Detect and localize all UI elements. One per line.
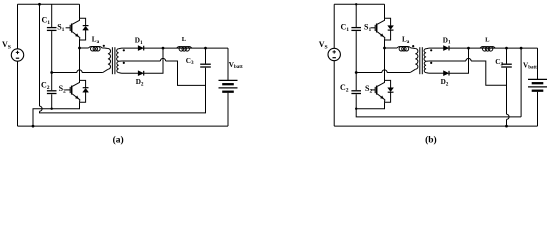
S1 (b) diode [388,26,394,30]
wire to D2 (a) [122,72,139,74]
inductor La (a) [88,46,102,48]
wire midpoint to La (b) [385,47,398,49]
wire C1 top (b) [355,4,357,27]
transformer T (b) core line 1 [419,47,421,74]
polarity dot primary (a) [103,45,105,47]
junction half-bridge midpoint (b) [383,47,386,50]
inductor La (b) [397,46,411,48]
wire primary return, hops over switch leg (b) [356,70,410,73]
capacitor C1 (a) [47,27,57,29]
transistor S1 (b) (IGBT with antiparallel diode) [385,18,391,25]
svg-text:L: L [182,36,187,43]
transformer T (a) secondary lower winding [117,61,119,72]
wire C3 bottom to bottom rail, hops over common wire (b) [507,68,510,126]
junction common riser top (b) [520,47,523,50]
top rail (b) [334,3,384,5]
svg-text:L: L [485,37,490,44]
wire primary return, hops over switch leg (a) [52,70,103,73]
wire D1 cathode (b) [449,47,468,49]
battery Vbatt (a) [227,48,229,80]
wire C3 top lead (a) [205,48,207,63]
capacitor C3 (a) [200,63,211,65]
wire C1 top (a) [51,4,53,27]
wire secondary bottom lead (b) [426,72,429,75]
transistor S2 (b) (IGBT with antiparallel diode) [385,80,391,87]
wire to D1 (b) [429,47,444,49]
wire secondary center tap lead (b) [426,60,429,62]
wire C1-C2 (a) [51,31,53,90]
wire secondary bottom lead (a) [119,72,122,75]
polarity dot primary (b) [412,45,414,47]
inductor L (a) [177,47,192,49]
junction half-bridge midpoint (a) [78,47,81,50]
wire primary bottom lead (a) [103,69,108,72]
wire secondary top lead (a) [119,47,122,50]
junction top rail / C1 (b) [355,3,357,5]
wire S1-S2 leg (b) [384,40,386,80]
wire D2 cathode riser (b) [449,48,468,73]
wire rail to S1 (a) [79,4,81,18]
bottom rail (b) [334,125,537,127]
transformer T (b) secondary lower winding [424,61,426,72]
diode D2 (a) [138,71,143,76]
transistor S2 (a) (IGBT with antiparallel diode) [80,80,86,87]
inductor L (b) [480,47,495,49]
junction C3 top (b) [505,47,508,50]
junction cap midpoint / primary return (b) [355,71,358,74]
polarity dot secondary lower (a) [123,62,125,64]
junction rectifier output (b) [467,47,470,50]
wire output top (b) [469,47,538,49]
S1 (a) diode [83,25,89,27]
battery Vbatt (b) [537,48,539,79]
wire S1-S2 leg (a) [79,40,81,80]
bottom rail (a) [18,125,229,127]
wire C2 bottom (a) [51,94,53,108]
junction rectifier output (a) [162,47,165,50]
transistor S1 (a) (IGBT with antiparallel diode) [80,18,86,25]
svg-text:(b): (b) [425,135,437,146]
transformer T (a) core line 2 [114,47,116,74]
junction top rail / common wire (a) [38,3,41,6]
junction C3 top (a) [204,47,207,50]
wire common riser (b) [520,48,522,117]
capacitor C3 (b) [501,63,512,65]
S2 (a) diode [83,87,89,89]
capacitor C2 (a) [47,90,57,92]
wire center tap return with hop (a) [122,58,206,85]
polarity dot secondary upper (a) [123,49,125,51]
diode D1 (a) [138,46,143,51]
capacitor C1 (b) [351,27,361,29]
wire S2 emitter return (b) [356,102,384,109]
junction C3 / bottom rail (b) [505,125,508,128]
wire Vs top lead (a) [17,4,19,49]
wire rail to S1 (b) [384,4,386,18]
wire primary bottom lead (b) [410,69,415,72]
transformer T (a) core line 1 [111,47,113,74]
wire Vs bottom lead (a) [17,61,19,126]
wire S2 emitter to bottom rail (a) [33,102,80,126]
wire secondary top lead (b) [426,47,429,50]
transformer T (a) primary winding [108,49,111,70]
transformer T (a) secondary upper winding [117,49,119,61]
diode D2 (b) [444,71,449,76]
source Vs (a) [11,49,23,61]
wire secondary center tap lead (a) [119,60,122,62]
junction C2 leg / S2 return (b) [355,108,357,110]
wire D2 cathode riser (a) [144,48,163,73]
wire D1 cathode (a) [144,47,163,49]
wire midpoint to La (a) [80,47,89,49]
diode D1 (b) [444,46,449,51]
junction C2 / return wire (a) [51,108,53,110]
junction bottom rail / return (a) [32,125,35,128]
transformer T (b) primary winding [415,49,418,70]
wire La to primary (a) [102,47,108,50]
polarity dot secondary lower (b) [430,62,432,64]
wire to D1 (a) [122,47,139,49]
junction cap midpoint / primary return (a) [50,71,53,74]
transformer T (b) core line 2 [421,47,423,74]
wire C3 bottom lead (a) [205,68,207,113]
transformer T (b) secondary upper winding [424,49,426,61]
top rail (a) [18,3,80,5]
wire C3 top lead (b) [506,48,508,63]
svg-text:(a): (a) [113,135,124,146]
wire La to primary (b) [411,47,416,50]
S2 (b) diode [388,88,394,92]
wire Vs top lead (b) [333,4,335,48]
wire center tap return with hop (b) [429,58,507,85]
wire C2 bottom to output common riser (b) [356,94,521,117]
source Vs (b) [328,48,340,60]
capacitor C2 (b) [351,90,361,92]
polarity dot secondary upper (b) [430,49,432,51]
wire to D2 (b) [429,72,444,74]
common wire (a): top rail to output negative, hops over return [40,4,206,113]
wire output top (a) [163,47,228,49]
wire C1-C2 (b) [355,31,357,90]
wire Vs bottom lead (b) [333,61,335,126]
